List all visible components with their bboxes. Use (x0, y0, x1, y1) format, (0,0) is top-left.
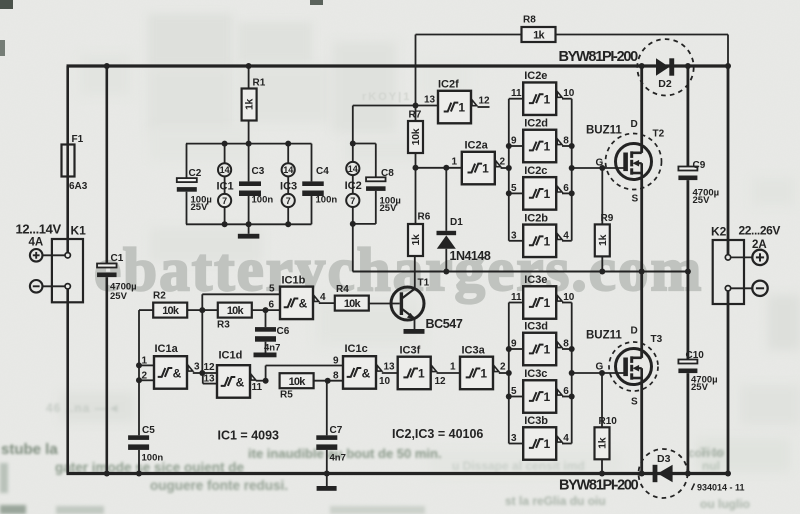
svg-text:C2: C2 (189, 168, 202, 179)
svg-text:4: 4 (563, 230, 569, 241)
svg-text:&: & (362, 366, 371, 380)
svg-text:25V: 25V (691, 382, 709, 393)
svg-text:R10: R10 (599, 416, 618, 427)
svg-text:BYW81PI-200: BYW81PI-200 (559, 478, 639, 494)
svg-text:100n: 100n (316, 195, 338, 206)
svg-text:4: 4 (320, 292, 326, 303)
svg-text:S: S (632, 194, 639, 205)
svg-text:D3: D3 (657, 453, 671, 465)
svg-text:1: 1 (418, 367, 425, 381)
svg-text:IC1a: IC1a (155, 343, 179, 355)
svg-text:R2: R2 (153, 291, 166, 302)
svg-text:T2: T2 (653, 129, 665, 140)
svg-text:7: 7 (350, 196, 355, 206)
svg-text:1: 1 (458, 101, 465, 115)
svg-text:8: 8 (333, 371, 339, 382)
svg-text:1k: 1k (533, 30, 545, 42)
svg-text:IC3e: IC3e (524, 274, 547, 286)
svg-text:R9: R9 (601, 213, 614, 224)
svg-text:100n: 100n (142, 453, 164, 464)
svg-text:1k: 1k (597, 234, 609, 246)
svg-text:1: 1 (450, 361, 456, 372)
svg-text:6: 6 (563, 183, 569, 194)
svg-text:9: 9 (333, 356, 339, 367)
svg-text:F1: F1 (72, 134, 84, 145)
svg-text:11: 11 (511, 88, 522, 99)
svg-text:1: 1 (544, 92, 551, 106)
svg-text:25V: 25V (693, 195, 711, 206)
svg-text:10k: 10k (162, 305, 180, 317)
svg-text:7: 7 (286, 196, 291, 206)
svg-text:6: 6 (563, 386, 569, 397)
svg-text:C5: C5 (142, 425, 155, 436)
svg-text:3: 3 (511, 230, 517, 241)
svg-text:IC3b: IC3b (524, 415, 548, 427)
svg-text:BC547: BC547 (426, 317, 463, 331)
svg-text:BUZ11: BUZ11 (586, 125, 622, 137)
svg-text:2A: 2A (752, 239, 767, 251)
svg-text:14: 14 (283, 165, 293, 175)
svg-text:1: 1 (544, 234, 551, 248)
svg-text:11: 11 (252, 382, 263, 393)
svg-text:3: 3 (194, 361, 200, 372)
svg-text:1: 1 (544, 187, 551, 201)
svg-text:1: 1 (544, 296, 551, 310)
svg-text:1: 1 (452, 157, 458, 168)
svg-text:9: 9 (511, 136, 517, 147)
svg-text:14: 14 (348, 164, 358, 174)
svg-text:10k: 10k (410, 128, 422, 145)
svg-text:C6: C6 (277, 326, 290, 337)
svg-text:D1: D1 (450, 217, 463, 228)
svg-text:12: 12 (435, 376, 447, 387)
svg-text:G: G (596, 158, 604, 169)
svg-text:10: 10 (563, 292, 575, 303)
svg-text:IC2b: IC2b (524, 212, 548, 224)
svg-text:IC2d: IC2d (524, 117, 548, 129)
svg-text:IC1b: IC1b (282, 274, 306, 286)
svg-text:K2: K2 (711, 225, 727, 239)
svg-text:13: 13 (204, 373, 216, 384)
svg-text:R6: R6 (418, 212, 431, 223)
svg-text:T3: T3 (651, 334, 663, 345)
svg-text:7: 7 (222, 196, 227, 206)
svg-text:10k: 10k (289, 376, 307, 388)
svg-text:1: 1 (544, 343, 551, 357)
svg-text:IC3: IC3 (280, 180, 297, 192)
svg-text:D: D (631, 326, 638, 337)
svg-text:BUZ11: BUZ11 (586, 330, 622, 342)
svg-text:IC3c: IC3c (524, 368, 547, 380)
svg-text:S: S (631, 397, 638, 408)
svg-text:12: 12 (204, 362, 216, 373)
svg-text:T1: T1 (418, 278, 430, 289)
svg-text:3: 3 (511, 433, 517, 444)
svg-text:R5: R5 (280, 390, 293, 401)
svg-text:2: 2 (142, 371, 148, 382)
svg-text:934014 - 11: 934014 - 11 (697, 483, 745, 493)
svg-text:1: 1 (544, 390, 551, 404)
svg-text:IC1: IC1 (216, 180, 233, 192)
svg-text:R1: R1 (253, 78, 266, 89)
svg-text:IC1d: IC1d (219, 350, 243, 362)
svg-text:10: 10 (379, 376, 391, 387)
svg-text:IC2,IC3 = 40106: IC2,IC3 = 40106 (392, 427, 483, 441)
svg-text:8: 8 (563, 339, 569, 350)
svg-text:4n7: 4n7 (330, 453, 346, 464)
svg-text:6: 6 (269, 299, 275, 310)
svg-text:4n7: 4n7 (264, 343, 280, 354)
svg-text:IC2c: IC2c (524, 165, 547, 177)
svg-text:1: 1 (142, 355, 148, 366)
svg-text:IC2: IC2 (345, 180, 362, 192)
svg-text:11: 11 (511, 292, 522, 303)
svg-text:C7: C7 (330, 425, 343, 436)
svg-text:14: 14 (220, 165, 230, 175)
svg-text:IC2a: IC2a (465, 140, 489, 152)
svg-text:1N4148: 1N4148 (450, 249, 491, 263)
svg-text:IC3d: IC3d (524, 320, 548, 332)
svg-text:IC2e: IC2e (524, 70, 547, 82)
svg-text:C10: C10 (686, 350, 705, 361)
svg-text:25V: 25V (110, 291, 128, 302)
svg-text:9: 9 (511, 339, 517, 350)
svg-text:13: 13 (384, 361, 396, 372)
svg-text:C8: C8 (381, 168, 394, 179)
svg-text:10k: 10k (227, 305, 245, 317)
svg-text:C9: C9 (693, 160, 706, 171)
svg-text:100n: 100n (252, 195, 274, 206)
svg-text:25V: 25V (380, 203, 398, 214)
svg-text:1: 1 (480, 367, 487, 381)
svg-text:5: 5 (269, 283, 275, 294)
svg-text:D: D (631, 119, 638, 130)
svg-text:1k: 1k (597, 437, 609, 449)
svg-text:6A3: 6A3 (69, 181, 88, 192)
svg-text:12: 12 (479, 96, 491, 107)
svg-text:IC3a: IC3a (462, 344, 486, 356)
svg-text:R7: R7 (409, 110, 422, 121)
svg-text:5: 5 (511, 386, 517, 397)
svg-text:8: 8 (563, 136, 569, 147)
svg-text:R4: R4 (336, 284, 349, 295)
svg-text:1: 1 (544, 437, 551, 451)
svg-text:13: 13 (424, 95, 436, 106)
svg-text:1: 1 (544, 140, 551, 154)
svg-text:IC1c: IC1c (345, 343, 368, 355)
svg-text:1k: 1k (410, 234, 422, 246)
svg-text:D2: D2 (658, 78, 672, 90)
svg-text:IC3f: IC3f (400, 344, 421, 356)
svg-text:G: G (596, 362, 604, 373)
svg-text:10: 10 (563, 88, 575, 99)
svg-text:2: 2 (500, 361, 506, 372)
svg-text:12...14V: 12...14V (16, 222, 62, 237)
svg-text:K1: K1 (71, 224, 87, 238)
svg-text:&: & (299, 297, 308, 311)
svg-text:1k: 1k (244, 99, 256, 111)
svg-text:IC1 = 4093: IC1 = 4093 (218, 429, 280, 443)
svg-text:BYW81PI-200: BYW81PI-200 (559, 49, 639, 65)
svg-text:C4: C4 (316, 166, 329, 177)
svg-text:10k: 10k (344, 298, 362, 310)
svg-text:&: & (173, 366, 182, 380)
svg-text:&: & (236, 375, 245, 389)
svg-text:R3: R3 (217, 320, 230, 331)
svg-text:2: 2 (500, 157, 506, 168)
svg-text:25V: 25V (191, 202, 209, 213)
svg-text:4: 4 (563, 433, 569, 444)
svg-text:IC2f: IC2f (438, 79, 459, 91)
svg-text:R8: R8 (523, 15, 536, 26)
svg-text:C1: C1 (111, 253, 124, 264)
svg-text:1: 1 (482, 162, 489, 176)
svg-text:5: 5 (511, 183, 517, 194)
svg-text:22...26V: 22...26V (739, 224, 781, 238)
svg-text:4A: 4A (29, 237, 44, 249)
svg-text:C3: C3 (252, 166, 265, 177)
